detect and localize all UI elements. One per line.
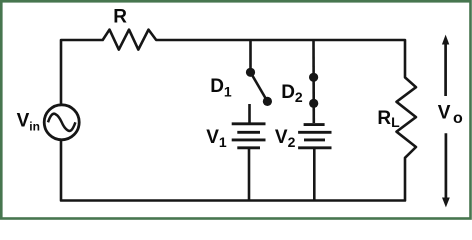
diode D2 shown as closed switch <box>309 73 318 108</box>
wire D1 branch from top bus <box>249 40 252 70</box>
wire V1 top lead <box>248 104 251 123</box>
arrow Vo up <box>442 35 449 96</box>
wire V2 bottom lead <box>313 149 316 201</box>
wire D2 branch through closed switch to V2 <box>312 40 315 123</box>
voltage source Vin <box>44 105 79 140</box>
diode D1 shown as open switch <box>246 68 272 106</box>
battery V2 (short-long-short-long) <box>298 125 331 148</box>
wire outer loop with resistor R and resistor RL zigzags <box>61 30 416 201</box>
svg-text:R: R <box>113 7 127 28</box>
wire V1 bottom lead <box>248 148 251 201</box>
arrow Vo down <box>442 133 450 207</box>
battery V1 (long-short-long-short) <box>232 124 266 148</box>
